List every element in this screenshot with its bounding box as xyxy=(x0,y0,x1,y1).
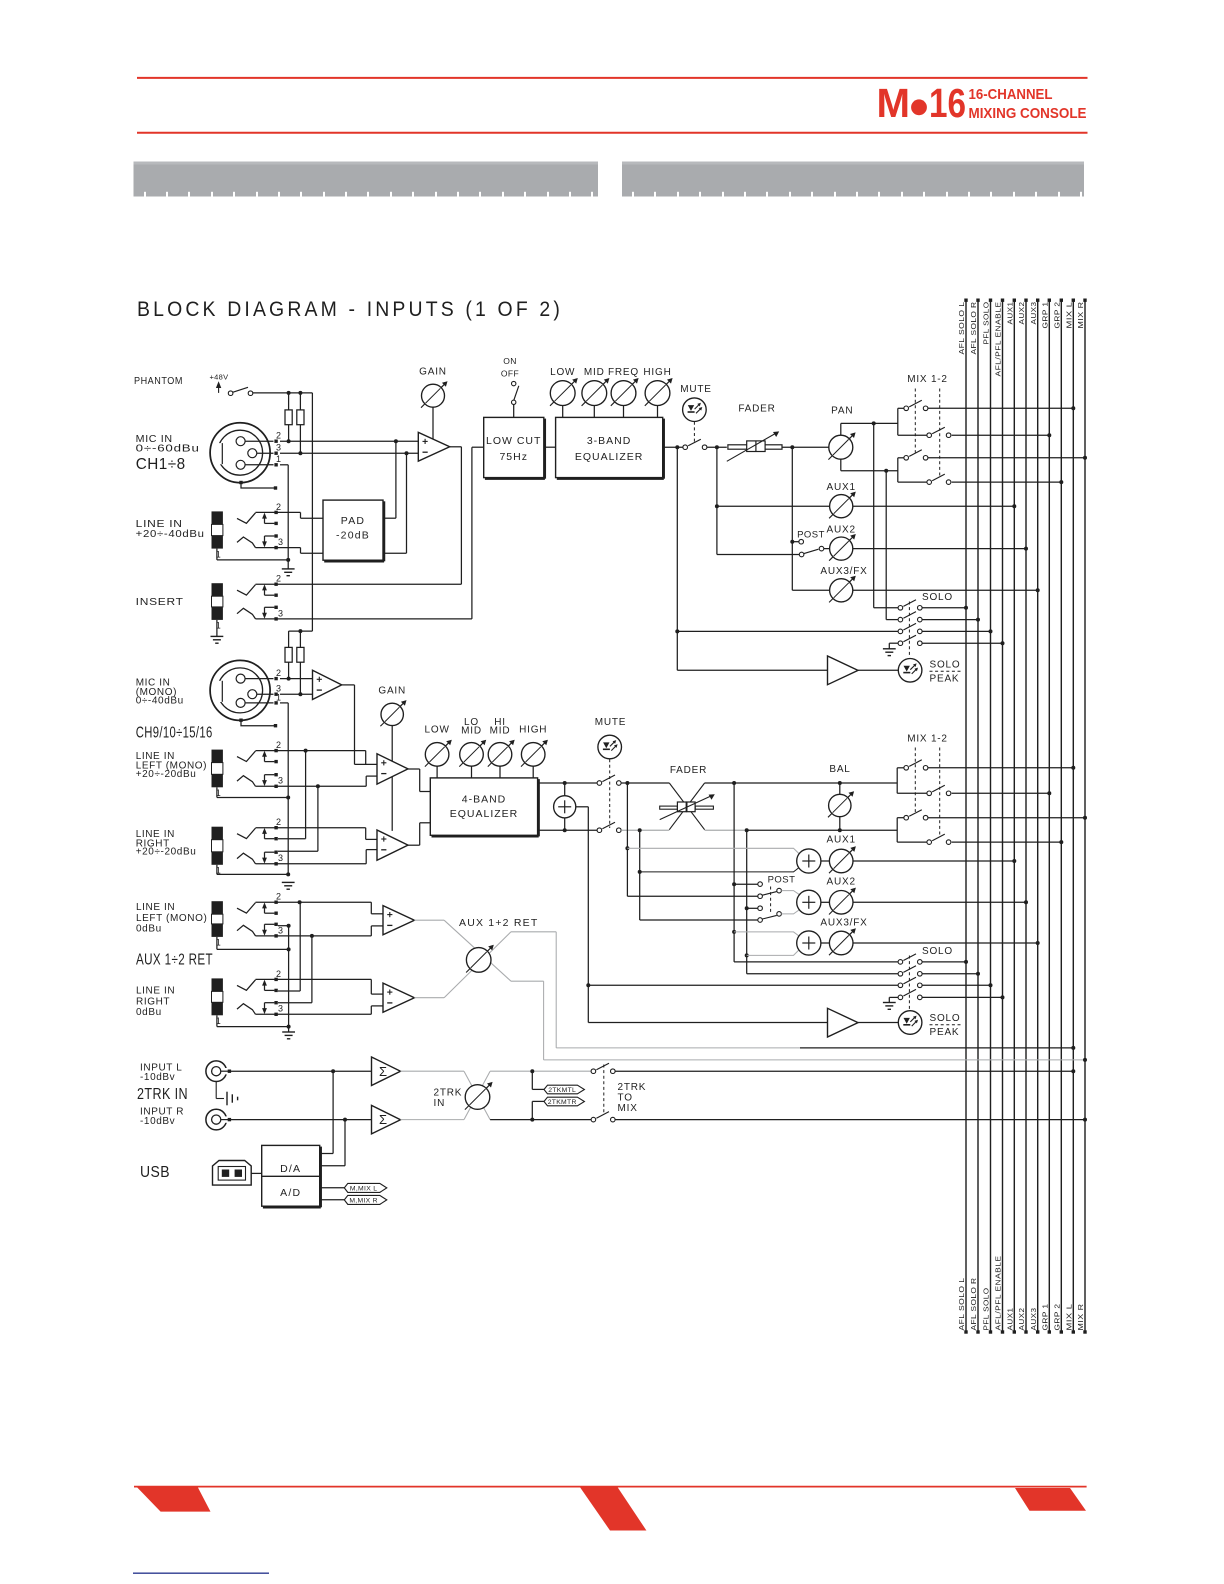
svg-text:AUX1: AUX1 xyxy=(1006,302,1015,325)
svg-text:-20dB: -20dB xyxy=(336,530,370,542)
svg-text:2: 2 xyxy=(276,817,281,827)
svg-text:2TKMTL: 2TKMTL xyxy=(548,1087,576,1094)
svg-text:D/A: D/A xyxy=(280,1163,301,1175)
svg-text:PFL SOLO: PFL SOLO xyxy=(982,1288,991,1331)
svg-text:0÷-40dBu: 0÷-40dBu xyxy=(136,696,184,707)
svg-text:MIX L: MIX L xyxy=(1065,1304,1074,1331)
svg-text:+20÷-20dBu: +20÷-20dBu xyxy=(136,847,197,858)
svg-text:AFL SOLO R: AFL SOLO R xyxy=(969,301,978,354)
svg-text:PEAK: PEAK xyxy=(930,674,960,685)
svg-text:2TRK: 2TRK xyxy=(618,1082,647,1093)
svg-text:USB: USB xyxy=(140,1164,170,1181)
svg-text:MUTE: MUTE xyxy=(680,384,712,395)
svg-text:AUX1: AUX1 xyxy=(1006,1308,1015,1331)
svg-text:2: 2 xyxy=(276,969,281,979)
svg-text:LINE IN: LINE IN xyxy=(136,986,175,997)
svg-text:AUX 1÷2 RET: AUX 1÷2 RET xyxy=(136,952,213,969)
svg-text:PAN: PAN xyxy=(831,406,853,417)
svg-text:CH9/10÷15/16: CH9/10÷15/16 xyxy=(136,725,213,742)
svg-text:AUX 1+2 RET: AUX 1+2 RET xyxy=(459,917,538,929)
svg-text:16-CHANNEL: 16-CHANNEL xyxy=(969,86,1053,103)
svg-text:SOLO: SOLO xyxy=(922,946,953,957)
svg-text:RIGHT: RIGHT xyxy=(136,997,170,1008)
svg-text:-10dBv: -10dBv xyxy=(140,1116,175,1127)
svg-text:AUX3/FX: AUX3/FX xyxy=(820,917,867,928)
svg-text:2: 2 xyxy=(276,502,281,512)
svg-text:2TRK IN: 2TRK IN xyxy=(137,1086,188,1103)
svg-text:FADER: FADER xyxy=(738,404,775,415)
svg-text:GRP 2: GRP 2 xyxy=(1053,302,1062,329)
svg-text:PHANTOM: PHANTOM xyxy=(134,376,183,387)
svg-text:GRP 2: GRP 2 xyxy=(1053,1304,1062,1331)
svg-text:3: 3 xyxy=(276,443,281,453)
svg-text:2: 2 xyxy=(276,431,281,441)
svg-text:OFF: OFF xyxy=(501,369,519,379)
svg-text:AFL/PFL ENABLE: AFL/PFL ENABLE xyxy=(994,1256,1003,1331)
svg-text:TO: TO xyxy=(618,1092,633,1103)
svg-text:BLOCK DIAGRAM - INPUTS (1 OF 2: BLOCK DIAGRAM - INPUTS (1 OF 2) xyxy=(137,298,563,321)
svg-text:AUX3: AUX3 xyxy=(1029,302,1038,325)
svg-text:LOW: LOW xyxy=(425,724,450,735)
svg-text:AFL SOLO L: AFL SOLO L xyxy=(957,1278,966,1331)
svg-text:AFL/PFL ENABLE: AFL/PFL ENABLE xyxy=(994,301,1003,376)
svg-text:+20÷-20dBu: +20÷-20dBu xyxy=(136,769,197,780)
svg-text:POST: POST xyxy=(768,874,796,885)
svg-text:PAD: PAD xyxy=(341,515,365,527)
svg-text:LOW CUT: LOW CUT xyxy=(486,435,541,447)
svg-text:A/D: A/D xyxy=(280,1187,301,1199)
svg-text:MID: MID xyxy=(461,726,482,737)
svg-text:FREQ: FREQ xyxy=(608,367,639,378)
svg-text:3: 3 xyxy=(278,925,283,935)
svg-text:GRP 1: GRP 1 xyxy=(1041,302,1050,329)
svg-text:2: 2 xyxy=(276,740,281,750)
svg-text:3: 3 xyxy=(278,776,283,786)
svg-text:AFL SOLO R: AFL SOLO R xyxy=(969,1277,978,1330)
svg-text:LEFT (MONO): LEFT (MONO) xyxy=(136,913,207,924)
svg-text:MIX 1-2: MIX 1-2 xyxy=(907,734,948,745)
svg-text:IN: IN xyxy=(434,1098,446,1109)
svg-text:2: 2 xyxy=(276,892,281,902)
svg-text:PFL SOLO: PFL SOLO xyxy=(982,301,991,344)
svg-text:MIX R: MIX R xyxy=(1076,301,1085,328)
svg-text:MID: MID xyxy=(584,367,605,378)
svg-text:+48V: +48V xyxy=(210,373,229,382)
svg-text:CH1÷8: CH1÷8 xyxy=(136,456,186,473)
svg-text:4-BAND: 4-BAND xyxy=(462,794,507,806)
svg-text:GAIN: GAIN xyxy=(419,367,447,378)
svg-text:LOW: LOW xyxy=(550,367,575,378)
svg-text:HIGH: HIGH xyxy=(519,724,547,735)
svg-text:AUX3/FX: AUX3/FX xyxy=(820,566,867,577)
svg-text:1: 1 xyxy=(276,692,281,702)
svg-text:2: 2 xyxy=(276,574,281,584)
svg-text:ON: ON xyxy=(503,356,517,366)
svg-text:AUX2: AUX2 xyxy=(827,877,856,888)
svg-text:-10dBv: -10dBv xyxy=(140,1072,175,1083)
svg-text:1: 1 xyxy=(276,454,281,464)
svg-text:PEAK: PEAK xyxy=(930,1027,960,1038)
svg-text:EQUALIZER: EQUALIZER xyxy=(575,451,644,463)
svg-text:3: 3 xyxy=(278,608,283,618)
svg-text:MUTE: MUTE xyxy=(595,717,627,728)
svg-text:LINE IN: LINE IN xyxy=(136,902,175,913)
svg-text:M,MIX R: M,MIX R xyxy=(349,1197,378,1204)
svg-text:0÷-60dBu: 0÷-60dBu xyxy=(136,443,200,454)
svg-text:AUX1: AUX1 xyxy=(827,482,856,493)
svg-text:MIX: MIX xyxy=(618,1103,638,1114)
svg-text:MID: MID xyxy=(490,726,511,737)
svg-text:M: M xyxy=(877,80,911,126)
svg-text:POST: POST xyxy=(797,529,825,540)
svg-text:M,MIX L: M,MIX L xyxy=(350,1185,377,1192)
svg-text:3-BAND: 3-BAND xyxy=(587,435,632,447)
svg-text:0dBu: 0dBu xyxy=(136,924,162,935)
svg-text:3: 3 xyxy=(278,853,283,863)
svg-text:GRP 1: GRP 1 xyxy=(1041,1304,1050,1331)
svg-text:AUX2: AUX2 xyxy=(1017,302,1026,325)
svg-text:SOLO: SOLO xyxy=(930,659,961,670)
svg-text:BAL: BAL xyxy=(829,764,850,775)
svg-text:3: 3 xyxy=(278,537,283,547)
svg-text:16: 16 xyxy=(929,80,966,126)
svg-text:SOLO: SOLO xyxy=(930,1013,961,1024)
svg-text:2: 2 xyxy=(276,668,281,678)
svg-text:Σ: Σ xyxy=(379,1064,387,1079)
svg-text:MIX R: MIX R xyxy=(1076,1303,1085,1330)
svg-text:AFL SOLO L: AFL SOLO L xyxy=(957,302,966,355)
svg-text:AUX2: AUX2 xyxy=(1017,1308,1026,1331)
svg-text:FADER: FADER xyxy=(670,765,707,776)
svg-text:0dBu: 0dBu xyxy=(136,1007,162,1018)
svg-text:MIX 1-2: MIX 1-2 xyxy=(907,374,948,385)
svg-text:AUX1: AUX1 xyxy=(827,834,856,845)
svg-text:AUX3: AUX3 xyxy=(1029,1308,1038,1331)
svg-text:Σ: Σ xyxy=(379,1112,387,1127)
svg-text:2TRK: 2TRK xyxy=(434,1087,463,1098)
svg-text:EQUALIZER: EQUALIZER xyxy=(450,808,519,820)
svg-text:GAIN: GAIN xyxy=(378,686,406,697)
svg-text:MIXING CONSOLE: MIXING CONSOLE xyxy=(969,105,1087,122)
svg-text:75Hz: 75Hz xyxy=(499,451,528,463)
svg-text:SOLO: SOLO xyxy=(922,592,953,603)
svg-text:3: 3 xyxy=(278,1004,283,1014)
svg-text:MIX L: MIX L xyxy=(1065,302,1074,329)
svg-text:2TKMTR: 2TKMTR xyxy=(548,1099,577,1106)
svg-text:+20÷-40dBu: +20÷-40dBu xyxy=(136,529,205,540)
svg-text:INSERT: INSERT xyxy=(136,597,184,608)
svg-text:AUX2: AUX2 xyxy=(827,524,856,535)
svg-text:HIGH: HIGH xyxy=(643,367,671,378)
